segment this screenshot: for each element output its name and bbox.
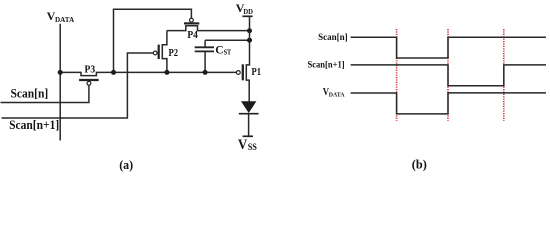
svg-text:P4: P4 xyxy=(187,30,198,41)
svg-text:SS: SS xyxy=(248,143,257,153)
svg-text:DATA: DATA xyxy=(55,15,75,24)
svg-text:Scan[n+1]: Scan[n+1] xyxy=(9,118,59,132)
svg-text:(b): (b) xyxy=(412,157,427,172)
svg-text:DATA: DATA xyxy=(329,92,345,99)
svg-text:P1: P1 xyxy=(252,67,262,78)
svg-text:V: V xyxy=(238,137,248,153)
svg-text:Scan[n]: Scan[n] xyxy=(11,87,49,101)
svg-text:ST: ST xyxy=(224,49,232,57)
svg-text:P2: P2 xyxy=(169,48,179,59)
svg-text:(a): (a) xyxy=(119,157,133,172)
svg-text:P3: P3 xyxy=(85,64,96,75)
svg-text:Scan[n+1]: Scan[n+1] xyxy=(308,59,345,69)
svg-text:Scan[n]: Scan[n] xyxy=(318,32,348,42)
svg-text:C: C xyxy=(215,45,223,57)
svg-text:DD: DD xyxy=(243,7,253,16)
